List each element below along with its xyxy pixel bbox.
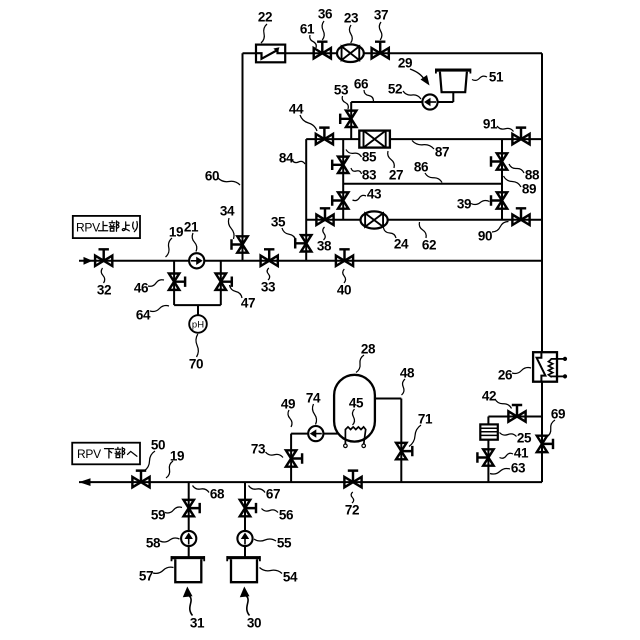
- wire pH loop right: [220, 261, 222, 305]
- svg-text:67: 67: [266, 487, 280, 502]
- arrow leader 30: [246, 596, 250, 616]
- wire line 66 horizontal: [351, 101, 453, 103]
- svg-text:32: 32: [97, 283, 111, 298]
- svg-text:37: 37: [374, 8, 388, 23]
- svg-text:72: 72: [345, 503, 359, 518]
- valve 53: [346, 111, 356, 127]
- svg-text:50: 50: [151, 438, 165, 453]
- svg-text:41: 41: [514, 446, 529, 461]
- valve 91: [512, 134, 529, 144]
- wire box25 drop: [487, 417, 489, 425]
- wire HX26 lead upper: [551, 358, 564, 360]
- wire line 48 horizontal: [375, 398, 401, 400]
- svg-text:58: 58: [146, 536, 161, 551]
- node RPV lower box: [72, 443, 140, 465]
- valve 35: [301, 235, 311, 251]
- wire line 62: [306, 219, 542, 221]
- svg-text:24: 24: [394, 237, 409, 252]
- wire line 48 vertical 71: [400, 399, 402, 483]
- svg-text:61: 61: [300, 22, 315, 37]
- valve 83: [338, 157, 348, 173]
- wire line 74: [291, 433, 339, 435]
- wire right main vertical: [541, 53, 543, 482]
- svg-text:73: 73: [251, 442, 266, 457]
- valve 59: [184, 500, 194, 516]
- wire pH stub: [197, 305, 199, 315]
- node RPV upper box: [73, 216, 140, 238]
- svg-text:47: 47: [241, 296, 255, 311]
- svg-text:33: 33: [261, 280, 276, 295]
- wire valve53 vertical: [350, 102, 352, 139]
- tank 28: [334, 375, 375, 442]
- pH meter: [189, 315, 207, 333]
- wire main line 19 upper: [79, 260, 542, 262]
- wire branch 73: [290, 434, 292, 483]
- valve 61: [314, 48, 331, 58]
- valve 32: [95, 256, 112, 266]
- svg-text:44: 44: [289, 102, 304, 117]
- pump 58: [181, 531, 196, 546]
- svg-text:51: 51: [489, 70, 504, 85]
- strainer 25: [480, 424, 498, 439]
- valve 50: [132, 477, 149, 487]
- svg-text:34: 34: [220, 204, 235, 219]
- svg-text:RPV: RPV: [77, 447, 101, 461]
- svg-text:45: 45: [349, 396, 364, 411]
- valve 73: [286, 450, 296, 466]
- wire line 87: [306, 138, 542, 140]
- blower 23: [337, 44, 364, 62]
- svg-text:71: 71: [418, 412, 433, 427]
- valve 38: [316, 215, 333, 225]
- svg-text:23: 23: [344, 11, 359, 26]
- valve 71: [396, 443, 406, 459]
- svg-text:54: 54: [283, 570, 298, 585]
- wire line 86: [343, 183, 502, 185]
- svg-text:46: 46: [134, 281, 149, 296]
- wire pH loop bottom 64: [174, 304, 221, 306]
- valve 47: [216, 274, 226, 290]
- svg-text:49: 49: [281, 397, 295, 412]
- svg-text:48: 48: [400, 366, 415, 381]
- wire HX26 lead lower: [551, 375, 564, 377]
- wire tank51 stub: [452, 93, 454, 102]
- svg-text:56: 56: [279, 508, 294, 523]
- svg-text:43: 43: [367, 187, 382, 202]
- svg-text:64: 64: [136, 308, 151, 323]
- svg-text:19: 19: [169, 225, 183, 240]
- valve 43: [338, 192, 348, 208]
- valve 69: [537, 436, 547, 452]
- svg-text:52: 52: [388, 82, 402, 97]
- svg-text:pH: pH: [192, 319, 204, 330]
- heater 45: [345, 427, 365, 444]
- valve 33: [261, 256, 278, 266]
- svg-text:59: 59: [151, 508, 165, 523]
- valve 56: [240, 500, 250, 516]
- svg-text:70: 70: [189, 357, 203, 372]
- arrow outlet RPV lower: [79, 478, 91, 486]
- svg-text:57: 57: [139, 569, 153, 584]
- svg-text:53: 53: [334, 83, 349, 98]
- svg-text:68: 68: [210, 487, 225, 502]
- pump 74: [308, 426, 323, 441]
- tank 57: [171, 556, 205, 559]
- tank 54: [227, 556, 261, 559]
- svg-text:38: 38: [317, 239, 332, 254]
- heat exchanger 26: [533, 352, 557, 382]
- svg-text:42: 42: [482, 389, 496, 404]
- arrow leader 31: [189, 596, 193, 616]
- wire pH loop left: [173, 261, 175, 305]
- svg-text:55: 55: [277, 536, 292, 551]
- svg-text:88: 88: [525, 168, 540, 183]
- valve 72: [344, 477, 361, 487]
- svg-text:84: 84: [279, 151, 294, 166]
- svg-text:22: 22: [258, 10, 272, 25]
- svg-text:36: 36: [318, 7, 333, 22]
- svg-text:89: 89: [522, 182, 536, 197]
- wire branch 54: [244, 482, 246, 556]
- svg-text:66: 66: [354, 77, 369, 92]
- svg-text:27: 27: [389, 168, 403, 183]
- svg-text:30: 30: [247, 616, 261, 631]
- svg-text:40: 40: [337, 283, 351, 298]
- svg-text:28: 28: [361, 342, 376, 357]
- svg-text:31: 31: [190, 616, 205, 631]
- tank 51: [435, 69, 471, 72]
- filter 27: [359, 131, 390, 148]
- svg-text:69: 69: [551, 407, 565, 422]
- valve 40: [336, 256, 353, 266]
- valve 90: [512, 215, 529, 225]
- arrow inlet RPV upper: [84, 257, 93, 265]
- wire top line 61-23-37: [243, 52, 543, 54]
- valve 41: [483, 449, 493, 465]
- valve 46: [169, 274, 179, 290]
- valve 42: [508, 411, 525, 421]
- valve 88: [497, 153, 507, 169]
- svg-text:62: 62: [422, 238, 436, 253]
- svg-text:63: 63: [511, 461, 526, 476]
- wire vertical 84: [305, 139, 307, 261]
- svg-text:86: 86: [414, 160, 429, 175]
- blower 24: [361, 211, 388, 228]
- wire right chain vertical 88-39: [501, 139, 503, 220]
- pump 55: [237, 531, 252, 546]
- valve 39: [497, 192, 507, 208]
- wire vertical 60: [242, 53, 244, 261]
- pump 21: [189, 253, 204, 268]
- valve 44: [316, 134, 333, 144]
- svg-text:91: 91: [483, 117, 498, 132]
- svg-text:85: 85: [362, 150, 377, 165]
- svg-text:25: 25: [517, 431, 532, 446]
- svg-text:90: 90: [478, 229, 492, 244]
- wire main line 19 lower: [79, 481, 542, 483]
- wire line 63 vertical: [487, 440, 489, 482]
- svg-text:RPV: RPV: [76, 221, 100, 235]
- arrow leader 29: [410, 69, 425, 80]
- svg-text:39: 39: [457, 197, 471, 212]
- valve 37: [372, 48, 389, 58]
- svg-text:83: 83: [362, 168, 377, 183]
- svg-text:74: 74: [306, 391, 321, 406]
- svg-text:35: 35: [271, 215, 286, 230]
- valve 34: [237, 236, 247, 252]
- wire line 42: [488, 416, 542, 418]
- svg-text:60: 60: [205, 169, 219, 184]
- svg-text:26: 26: [498, 368, 513, 383]
- svg-text:29: 29: [398, 56, 412, 71]
- pump 52: [422, 94, 437, 109]
- svg-text:21: 21: [184, 220, 199, 235]
- svg-text:87: 87: [435, 145, 449, 160]
- wire left chain vertical 83-43: [342, 139, 344, 220]
- wire branch 57: [188, 482, 190, 556]
- meter 22: [256, 45, 285, 63]
